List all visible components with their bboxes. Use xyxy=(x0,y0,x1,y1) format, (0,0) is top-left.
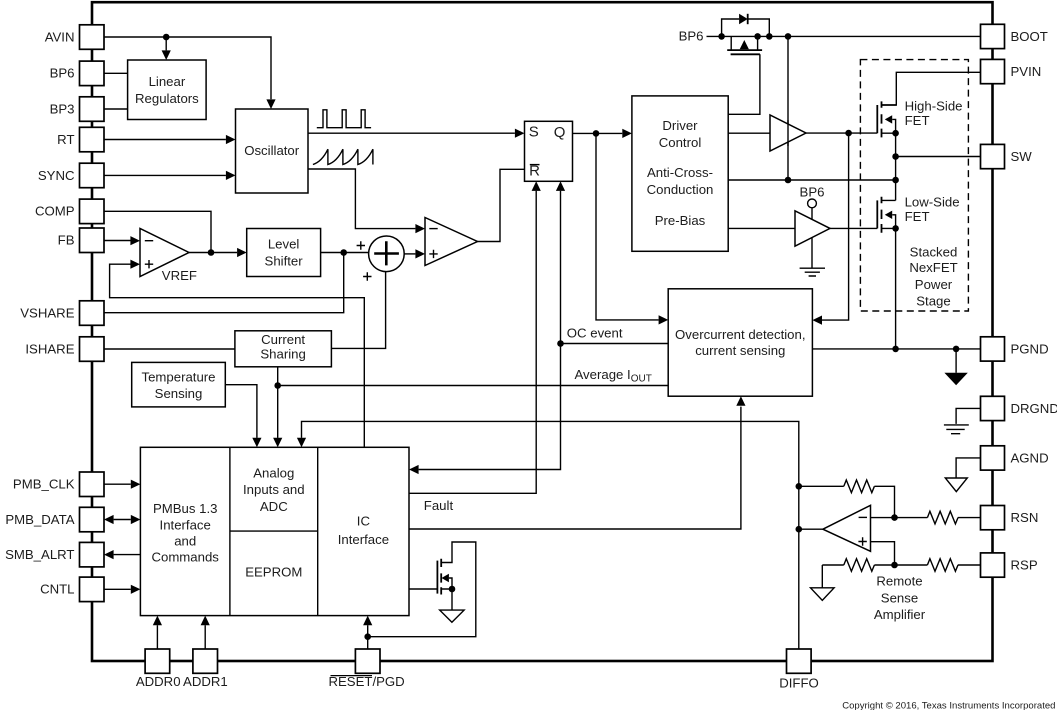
svg-text:EEPROM: EEPROM xyxy=(245,565,302,580)
svg-text:BP6: BP6 xyxy=(50,66,75,81)
wire SYNC to Oscillator xyxy=(104,174,226,176)
pin AVIN xyxy=(80,25,105,50)
wire SMB_ALRT from PMBus block xyxy=(114,554,141,556)
pin BP3 xyxy=(80,97,105,122)
svg-text:BP3: BP3 xyxy=(50,101,75,116)
clock pulse waveform xyxy=(317,110,371,128)
svg-text:current sensing: current sensing xyxy=(695,343,785,358)
pin RSN xyxy=(981,506,1005,530)
block Level Shifter xyxy=(247,229,321,277)
svg-text:Stacked: Stacked xyxy=(910,244,958,259)
wire Oscillator ramp to PWM comparator - input xyxy=(308,169,415,229)
svg-text:OC event: OC event xyxy=(567,326,623,341)
svg-text:PMB_CLK: PMB_CLK xyxy=(13,477,75,492)
wire Driver Control to low-side driver xyxy=(728,227,795,229)
wire low-side gate xyxy=(830,227,877,229)
wire ADDR1 to PMBus block xyxy=(204,625,206,649)
svg-text:COMP: COMP xyxy=(35,204,75,219)
svg-text:Anti-Cross-: Anti-Cross- xyxy=(647,165,713,180)
svg-text:VSHARE: VSHARE xyxy=(20,305,74,320)
wire remote amp feedback xyxy=(799,486,895,517)
resistor RSP input xyxy=(927,559,958,572)
svg-text:ADC: ADC xyxy=(260,499,288,514)
wire BOOT supply to high-side driver xyxy=(787,36,789,180)
wire RESET pull-down FET drain loop xyxy=(368,542,476,637)
svg-text:DRGND: DRGND xyxy=(1011,401,1057,416)
wire OC event to IC Interface xyxy=(419,344,561,470)
wire DRGND to chassis ground xyxy=(956,408,980,424)
svg-text:Conduction: Conduction xyxy=(647,182,714,197)
wire VSHARE to level shifter output node xyxy=(104,253,344,313)
svg-text:ISHARE: ISHARE xyxy=(25,341,74,356)
op-amp VREF error amplifier xyxy=(140,229,189,277)
pin RT xyxy=(80,127,105,152)
svg-text:Average IOUT: Average IOUT xyxy=(575,367,652,385)
pin ADDR1 xyxy=(193,649,218,673)
pin BP6 xyxy=(80,61,105,86)
svg-text:BOOT: BOOT xyxy=(1011,29,1048,44)
wire Temperature Sensing to ADC xyxy=(225,385,257,438)
wire Fault from IC Interface to latch xyxy=(409,191,536,494)
svg-text:CNTL: CNTL xyxy=(40,582,74,597)
pin DIFFO xyxy=(787,649,812,673)
svg-text:Overcurrent detection,: Overcurrent detection, xyxy=(675,327,805,342)
svg-text:Commands: Commands xyxy=(151,549,219,564)
redraw supply through buffer xyxy=(787,120,789,146)
wire ISHARE to Current Sharing xyxy=(104,348,235,350)
svg-text:Regulators: Regulators xyxy=(135,91,199,106)
svg-text:Sense: Sense xyxy=(881,590,918,605)
pin SYNC xyxy=(80,163,105,188)
transistor RESET open-drain FET xyxy=(436,561,438,594)
svg-text:Linear: Linear xyxy=(149,74,186,89)
wire latch Q output to Driver Control xyxy=(573,132,623,134)
op-amp Remote Sense Amplifier xyxy=(823,505,871,551)
summing junction xyxy=(369,236,405,272)
wire PMB_CLK to PMBus block xyxy=(104,483,131,485)
pin SMB_ALRT xyxy=(80,542,105,567)
svg-text:Shifter: Shifter xyxy=(265,253,304,268)
svg-text:Interface: Interface xyxy=(160,518,211,533)
wire RESET/PGD to IC Interface xyxy=(367,625,369,649)
wire AVIN to Linear Regulators and Oscillator xyxy=(104,37,271,99)
block Current Sharing xyxy=(235,331,332,367)
wire RSN to amp - input xyxy=(895,517,928,519)
svg-text:BP6: BP6 xyxy=(800,185,825,200)
wire low-side FET source to PGND xyxy=(895,228,897,349)
wire CNTL to PMBus block xyxy=(104,588,131,590)
pin BOOT xyxy=(981,24,1005,48)
wire PWM comparator output to latch Rbar input xyxy=(478,169,525,241)
svg-text:BP6: BP6 xyxy=(679,29,704,44)
svg-text:PVIN: PVIN xyxy=(1011,64,1042,79)
power ground arrow at PGND xyxy=(955,349,957,373)
block PMBus/ADC/EEPROM/IC Interface xyxy=(140,447,409,615)
svg-text:Fault: Fault xyxy=(424,498,454,513)
wire FET chain xyxy=(895,133,897,200)
svg-text:Oscillator: Oscillator xyxy=(244,143,300,158)
svg-text:SMB_ALRT: SMB_ALRT xyxy=(5,547,74,562)
svg-text:Q: Q xyxy=(554,124,566,141)
svg-text:SW: SW xyxy=(1011,149,1033,164)
pin CNTL xyxy=(80,577,105,602)
pin ISHARE xyxy=(80,337,105,362)
wire reference DAC from IC Interface to error amp + input xyxy=(110,264,365,447)
svg-text:AVIN: AVIN xyxy=(45,29,75,44)
transistor High-Side FET xyxy=(876,105,878,133)
svg-text:Sensing: Sensing xyxy=(155,386,203,401)
wire Oscillator clock to latch S input xyxy=(308,132,515,134)
pin SW xyxy=(981,144,1005,168)
svg-text:Interface: Interface xyxy=(338,532,389,547)
pin RSP xyxy=(981,553,1005,577)
wire PWM signal to Overcurrent block xyxy=(596,133,659,320)
svg-text:FET: FET xyxy=(905,113,930,128)
wire RT to Oscillator xyxy=(104,139,226,141)
svg-text:Driver: Driver xyxy=(662,118,698,133)
pin FB xyxy=(80,228,105,253)
wire BP6 bootstrap rail to BOOT xyxy=(707,35,981,37)
diode bootstrap xyxy=(722,19,770,36)
resistor feedback xyxy=(844,480,875,493)
svg-text:High-Side: High-Side xyxy=(905,99,963,114)
svg-text:Amplifier: Amplifier xyxy=(874,607,926,622)
svg-text:PGND: PGND xyxy=(1011,341,1049,356)
wire COMP to error amp output node xyxy=(104,211,211,252)
wire gate sense to Overcurrent block xyxy=(822,133,849,320)
transistor bootstrap switch xyxy=(731,36,757,50)
pin VSHARE xyxy=(80,301,105,326)
svg-text:Current: Current xyxy=(261,332,305,347)
svg-text:Level: Level xyxy=(268,236,300,251)
wire Overcurrent block to PGND pin xyxy=(812,348,980,350)
svg-text:Sharing: Sharing xyxy=(260,346,305,361)
transistor Low-Side FET xyxy=(876,200,878,228)
block Oscillator xyxy=(236,109,309,193)
svg-text:FB: FB xyxy=(58,233,75,248)
wire AGND to signal ground xyxy=(956,458,980,478)
wire BP6 pin to Linear Regulators xyxy=(104,72,128,74)
node plus label lower xyxy=(363,272,371,280)
wire Current Sharing to ADC xyxy=(277,367,279,438)
pin COMP xyxy=(80,199,105,224)
wire BP3 pin to Linear Regulators xyxy=(104,108,128,110)
wire Driver Control to high-side driver xyxy=(728,132,770,134)
svg-text:RESET/PGD: RESET/PGD xyxy=(328,674,404,689)
svg-text:Power: Power xyxy=(915,277,953,292)
pin DRGND xyxy=(981,396,1005,420)
svg-text:ADDR0: ADDR0 xyxy=(136,674,181,689)
main IC boundary xyxy=(92,2,993,661)
wire SW node to SW pin xyxy=(896,156,981,158)
wire summing junction to PWM comparator + input xyxy=(404,253,415,255)
block Temperature Sensing xyxy=(132,362,226,407)
pin AGND xyxy=(981,446,1005,470)
svg-text:Inputs and: Inputs and xyxy=(243,482,305,497)
pin PGND xyxy=(981,337,1005,361)
svg-text:PMB_DATA: PMB_DATA xyxy=(5,512,74,527)
node plus label upper xyxy=(357,241,365,249)
svg-text:DIFFO: DIFFO xyxy=(779,676,819,691)
svg-text:NexFET: NexFET xyxy=(909,260,957,275)
high-side gate driver buffer xyxy=(770,115,806,151)
wire OC event from Overcurrent block to latch reset xyxy=(561,343,669,345)
wire high-side gate xyxy=(806,132,877,134)
wire error amp output to Level Shifter xyxy=(189,252,237,254)
svg-text:RSN: RSN xyxy=(1011,510,1039,525)
svg-text:Temperature: Temperature xyxy=(141,370,215,385)
wire IC Interface to Overcurrent block bottom xyxy=(409,407,741,529)
SR latch U (S Q Rbar) xyxy=(525,121,573,181)
BP6 supply bubble for low-side driver xyxy=(808,199,817,208)
wire PMB_DATA bidirectional xyxy=(114,519,131,521)
wire RSP to amp + network xyxy=(895,564,928,566)
svg-text:PMBus 1.3: PMBus 1.3 xyxy=(153,501,218,516)
pin ADDR0 xyxy=(145,649,170,673)
pin RESET/PGD xyxy=(355,649,380,673)
wire DIFFO sense to ADC xyxy=(302,421,799,649)
resistor + input ground xyxy=(844,559,875,572)
wire Current Sharing to summing junction xyxy=(331,272,385,349)
earth ground for low-side driver xyxy=(811,238,813,269)
op-amp PWM comparator xyxy=(425,218,478,266)
pin PMB_DATA xyxy=(80,507,105,532)
svg-text:S: S xyxy=(529,124,539,141)
sawtooth ramp waveform xyxy=(313,149,373,164)
svg-text:FET: FET xyxy=(905,209,930,224)
svg-text:Low-Side: Low-Side xyxy=(905,195,960,210)
svg-text:Control: Control xyxy=(659,135,702,150)
wire remote amp output to DIFFO xyxy=(799,528,823,530)
svg-text:VREF: VREF xyxy=(162,268,197,283)
svg-text:Remote: Remote xyxy=(876,573,922,588)
wire Level Shifter output to summing junction xyxy=(321,252,369,254)
dashed box Stacked NexFET Power Stage xyxy=(860,60,968,311)
svg-text:Analog: Analog xyxy=(253,465,294,480)
block Linear Regulators xyxy=(128,60,207,120)
svg-text:ADDR1: ADDR1 xyxy=(183,674,228,689)
pin PVIN xyxy=(981,59,1005,83)
svg-text:Pre-Bias: Pre-Bias xyxy=(655,213,706,228)
low-side gate driver buffer xyxy=(795,211,830,246)
svg-text:RT: RT xyxy=(57,132,74,147)
svg-text:IC: IC xyxy=(357,514,371,529)
wire remote amp + input xyxy=(871,542,895,565)
block Driver Control / Anti-Cross-Conduction / Pre-Bias xyxy=(632,96,728,251)
svg-text:and: and xyxy=(174,534,196,549)
svg-text:Copyright © 2016, Texas Instru: Copyright © 2016, Texas Instruments Inco… xyxy=(842,700,1055,710)
wire + input ground leg xyxy=(822,564,894,566)
svg-text:Stage: Stage xyxy=(916,293,950,308)
wire remote amp - input xyxy=(871,517,895,519)
wire Average Iout to Overcurrent block xyxy=(278,385,669,387)
resistor RSN input xyxy=(927,511,958,524)
svg-text:RSP: RSP xyxy=(1011,558,1038,573)
pin PMB_CLK xyxy=(80,472,105,497)
wire FB to error amp inverting input xyxy=(104,240,131,242)
svg-text:AGND: AGND xyxy=(1011,450,1049,465)
wire driver return / SW sense xyxy=(728,179,895,181)
svg-text:SYNC: SYNC xyxy=(38,168,75,183)
wire PVIN to high-side FET drain xyxy=(882,72,981,105)
block Overcurrent detection, current sensing xyxy=(668,289,812,396)
wire ADDR0 to PMBus block xyxy=(156,625,158,649)
